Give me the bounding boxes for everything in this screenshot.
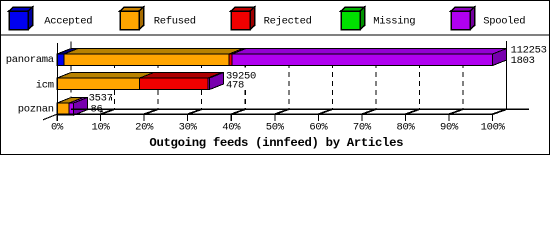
svg-text:10%: 10%	[92, 122, 111, 134]
svg-text:Outgoing feeds (innfeed) by Ar: Outgoing feeds (innfeed) by Articles	[149, 136, 403, 150]
svg-text:Accepted: Accepted	[44, 15, 92, 27]
svg-text:30%: 30%	[179, 122, 198, 134]
svg-text:1803: 1803	[511, 55, 535, 67]
svg-text:50%: 50%	[266, 122, 285, 134]
svg-text:90%: 90%	[440, 122, 459, 134]
svg-text:Spooled: Spooled	[483, 15, 525, 27]
svg-text:80%: 80%	[396, 122, 415, 134]
svg-text:0%: 0%	[51, 122, 64, 134]
svg-text:icm: icm	[36, 79, 54, 91]
svg-text:poznan: poznan	[18, 103, 54, 115]
svg-text:Refused: Refused	[154, 15, 196, 27]
svg-text:60%: 60%	[309, 122, 328, 134]
svg-text:panorama: panorama	[6, 54, 54, 66]
svg-text:86: 86	[91, 104, 103, 116]
svg-text:Missing: Missing	[373, 15, 415, 27]
svg-text:20%: 20%	[135, 122, 154, 134]
svg-text:100%: 100%	[481, 122, 506, 134]
svg-text:40%: 40%	[222, 122, 241, 134]
svg-text:478: 478	[226, 80, 244, 92]
svg-text:70%: 70%	[353, 122, 372, 134]
svg-text:3537: 3537	[89, 92, 113, 104]
svg-text:Rejected: Rejected	[264, 15, 312, 27]
